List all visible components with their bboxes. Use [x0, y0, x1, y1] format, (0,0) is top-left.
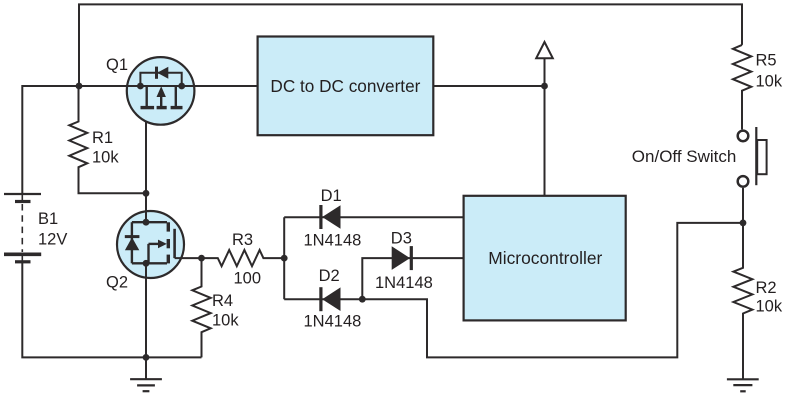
ground (left): [130, 357, 162, 391]
ground (right): [727, 379, 759, 391]
node R1/Q1 gate/Q2 drain: [143, 190, 150, 197]
node D2/D3 junction: [359, 296, 366, 303]
svg-text:Q1: Q1: [106, 56, 128, 74]
wire top rail from battery branch to R5: [79, 4, 742, 86]
transistor Q1 (P-MOSFET in circle): [127, 57, 195, 125]
wire Q1 drain to DC-DC converter: [194, 85, 258, 87]
svg-text:R1: R1: [92, 129, 113, 147]
node ground rail junction: [143, 354, 150, 361]
svg-text:10k: 10k: [92, 149, 119, 167]
diode D3 1N4148: [392, 246, 412, 270]
resistor R1: [69, 86, 146, 193]
wire switch to R2 junction: [742, 188, 744, 223]
svg-text:D2: D2: [319, 267, 340, 285]
svg-text:1N4148: 1N4148: [375, 274, 433, 292]
resistor R2: [733, 223, 752, 379]
svg-text:R5: R5: [756, 52, 777, 70]
node supply junction: [541, 83, 548, 90]
Microcontroller block: [464, 196, 626, 321]
DC to DC converter block: [258, 37, 434, 136]
wire D1 line to microcontroller: [284, 216, 463, 218]
svg-text:10k: 10k: [756, 73, 783, 91]
wire D2 line from bus to switch net: [284, 223, 743, 358]
wire supply node to microcontroller: [544, 86, 546, 196]
wire diode bus vertical: [283, 217, 285, 299]
svg-text:1N4148: 1N4148: [304, 231, 362, 249]
svg-text:Q2: Q2: [106, 274, 128, 292]
svg-text:R3: R3: [232, 231, 253, 249]
svg-text:B1: B1: [38, 210, 58, 228]
wire battery negative to bottom rail: [22, 262, 201, 358]
svg-text:12V: 12V: [38, 231, 67, 249]
svg-text:Microcontroller: Microcontroller: [488, 248, 602, 268]
svg-text:R4: R4: [212, 292, 233, 310]
node Q2 gate/R3/R4: [198, 255, 205, 262]
svg-text:1N4148: 1N4148: [304, 313, 362, 331]
svg-text:10k: 10k: [756, 298, 783, 316]
power symbol (supply triangle): [544, 58, 546, 86]
svg-text:On/Off Switch: On/Off Switch: [632, 147, 737, 166]
node switch/R2 junction: [740, 220, 747, 227]
battery B1: [4, 194, 41, 262]
svg-text:D1: D1: [321, 187, 342, 205]
svg-text:100: 100: [234, 269, 262, 287]
svg-text:10k: 10k: [212, 312, 239, 330]
resistor R5: [733, 45, 751, 129]
transistor Q2 (N-MOSFET in circle): [117, 211, 184, 278]
svg-text:D3: D3: [391, 230, 412, 248]
resistor R4: [192, 258, 210, 357]
wire Q2 gate to R3: [175, 257, 202, 259]
wire Q1 gate to Q2 drain: [145, 122, 147, 212]
wire D3 branch: [362, 258, 463, 299]
wire Q2 source to ground rail: [145, 263, 147, 357]
node R3/diode bus: [281, 255, 288, 262]
diode D1 1N4148: [321, 205, 341, 229]
node battery/R1/Q1 junction: [76, 83, 83, 90]
diode D2 1N4148: [321, 287, 341, 311]
switch SW On/Off push-button: [738, 127, 767, 187]
resistor R3: [202, 250, 285, 266]
svg-text:R2: R2: [756, 279, 777, 297]
wire DC-DC output to supply node: [433, 85, 545, 87]
svg-text:DC to DC converter: DC to DC converter: [270, 76, 420, 96]
wire battery positive to Q1 source: [22, 86, 127, 194]
